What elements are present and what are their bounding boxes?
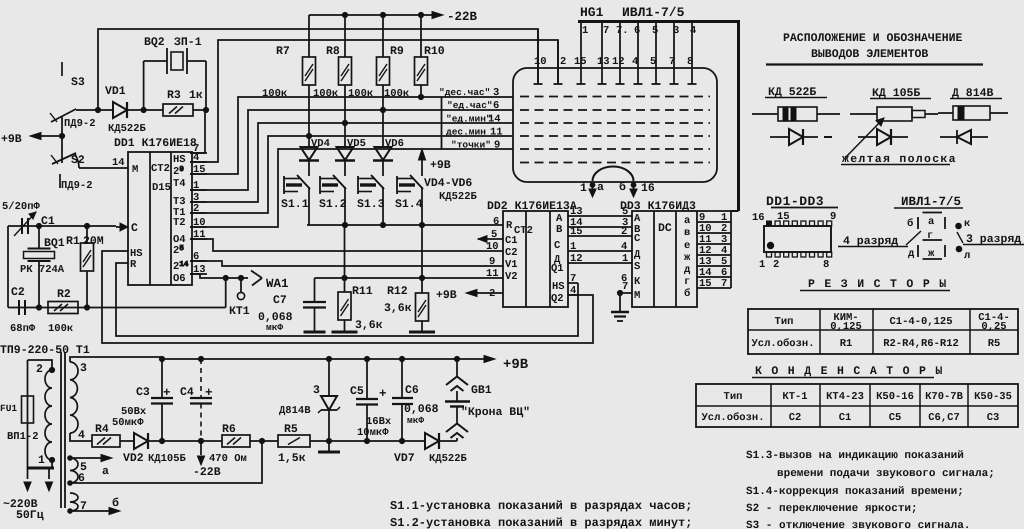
svg-text:100к: 100к [48, 323, 73, 335]
svg-text:РАСПОЛОЖЕНИЕ И ОБОЗНАЧЕНИЕ: РАСПОЛОЖЕНИЕ И ОБОЗНАЧЕНИЕ [783, 32, 963, 45]
transformer secondary winding 3-4 [70, 362, 92, 442]
svg-text:3: 3 [80, 362, 87, 375]
capacitors table [696, 384, 1018, 427]
svg-text:VD7: VD7 [394, 452, 415, 465]
svg-text:"точки": "точки" [451, 140, 491, 151]
svg-text:3,6к: 3,6к [355, 319, 383, 332]
resistor R1 20М [66, 226, 104, 308]
svg-text:S1.4: S1.4 [395, 198, 423, 211]
svg-text:VD4-VD6: VD4-VD6 [424, 177, 472, 190]
node osc bottom BQ1 [36, 305, 41, 310]
svg-text:VD5: VD5 [347, 138, 366, 150]
svg-text:V1: V1 [505, 259, 518, 271]
svg-text:б: б [112, 497, 119, 510]
svg-text:времени подачи звукового сигна: времени подачи звукового сигнала; [777, 468, 995, 480]
note S1.4 [746, 486, 964, 498]
node osc top R1 [84, 223, 89, 228]
anode bus heavy horizontal [578, 20, 740, 23]
wire DD1 pin2 to grid line дес.мин [190, 133, 513, 213]
svg-text:R2: R2 [57, 288, 71, 301]
transformer core [61, 352, 65, 508]
svg-text:DD3 К176ИД3: DD3 К176ИД3 [620, 200, 696, 213]
test point КТ1 [229, 278, 250, 318]
svg-text:С5: С5 [889, 412, 902, 424]
svg-text:10: 10 [534, 56, 547, 68]
svg-text:к: к [964, 218, 970, 230]
3 разряд pointer [956, 218, 1024, 262]
ИВЛ1-7/5 segment legend title [894, 195, 963, 209]
svg-text:C1: C1 [41, 215, 55, 228]
svg-text:S2 - переключение яркости;: S2 - переключение яркости; [746, 503, 918, 515]
svg-text:3: 3 [313, 384, 320, 397]
transformer T1 label [0, 344, 90, 357]
svg-text:11: 11 [486, 268, 499, 280]
svg-text:КД522Б: КД522Б [429, 453, 468, 465]
segment legend drawing [907, 213, 945, 261]
svg-text:О6: О6 [173, 273, 186, 285]
svg-text:4: 4 [78, 429, 85, 442]
svg-text:15: 15 [699, 278, 712, 290]
svg-text:7: 7 [622, 281, 628, 293]
svg-text:ИВЛ1-7/5: ИВЛ1-7/5 [901, 195, 961, 209]
svg-text:R3: R3 [167, 89, 181, 102]
svg-text:6: 6 [634, 25, 640, 37]
svg-text:М: М [132, 164, 138, 176]
output b arrow [70, 497, 120, 515]
ground R12 [409, 331, 435, 334]
package КД105Б [850, 107, 938, 121]
transformer secondary winding 7 [68, 493, 87, 513]
svg-text:D15: D15 [152, 182, 171, 194]
wire DD1 pin3 to grid line ед.мин [190, 120, 513, 202]
svg-text:10мкФ: 10мкФ [357, 427, 389, 439]
svg-text:0,25: 0,25 [981, 321, 1006, 333]
transformer secondary winding 5-6 [68, 456, 87, 486]
svg-text:а: а [102, 465, 109, 478]
svg-text:Д814В: Д814В [279, 405, 311, 417]
label VD4-VD6 КД522Б [424, 177, 478, 203]
svg-text:"Крона ВЦ": "Крона ВЦ" [461, 406, 530, 419]
switch S1.2 [319, 160, 347, 225]
panel title [766, 32, 983, 65]
power +9V terminal (left arrow) [1, 132, 62, 146]
resistor R7 100к [262, 15, 316, 136]
svg-text:б: б [907, 218, 913, 230]
label дес.час pin3 [439, 87, 499, 99]
svg-text:DD1 К176ИЕ18: DD1 К176ИЕ18 [114, 137, 197, 150]
anode bus heavy vertical [731, 21, 739, 211]
svg-text:-22В: -22В [447, 10, 478, 24]
svg-text:VD6: VD6 [385, 138, 404, 150]
callout желтая полоска [841, 118, 957, 166]
svg-text:1: 1 [38, 454, 45, 467]
svg-text:6: 6 [493, 100, 499, 112]
switch S3 (ПД9-2) [50, 62, 85, 136]
grid label box left edge [441, 97, 443, 149]
svg-text:К50-16: К50-16 [876, 391, 914, 403]
DD2 C1 input stub [478, 236, 503, 243]
svg-text:д: д [684, 264, 691, 276]
label КД 105Б [870, 87, 931, 100]
svg-text:+9В: +9В [436, 289, 457, 302]
diode VD2 КД105Б [123, 433, 187, 465]
svg-text:ИВЛ1-7/5: ИВЛ1-7/5 [622, 5, 685, 20]
IC DD3 К176ИД3 body [620, 200, 697, 307]
svg-text:S1.1-установка показаний в раз: S1.1-установка показаний в разрядах часо… [390, 499, 692, 513]
svg-text:C7: C7 [273, 294, 287, 307]
label дес.мин pin11 [446, 127, 503, 139]
svg-text:д: д [908, 248, 915, 260]
svg-text:15: 15 [570, 226, 583, 238]
resistor R12 3,6к [384, 225, 429, 332]
svg-text:0,125: 0,125 [830, 321, 862, 333]
svg-text:г: г [684, 276, 690, 288]
svg-text:C: C [634, 233, 641, 245]
resistor R5 1,5к [278, 423, 310, 465]
svg-text:T2: T2 [173, 217, 186, 229]
svg-text:HS: HS [173, 154, 186, 166]
svg-text:R10: R10 [424, 45, 445, 58]
resistor R8 100к [313, 15, 352, 147]
svg-text:Усл.обозн.: Усл.обозн. [701, 412, 764, 424]
display top pin stubs [534, 22, 697, 85]
svg-text:мкФ: мкФ [407, 415, 424, 426]
note S3 [746, 520, 970, 529]
svg-text:R1: R1 [66, 235, 80, 248]
svg-text:2: 2 [560, 56, 566, 68]
capacitor C5 16Вх10мкФ [350, 359, 392, 441]
diode VD1 КД522Б [105, 85, 147, 135]
+9V arrow to S1.4 [418, 149, 450, 176]
svg-text:б: б [684, 288, 690, 300]
label ед.час pin6 [447, 100, 499, 112]
svg-text:GB1: GB1 [471, 384, 492, 397]
svg-text:Тип: Тип [775, 316, 794, 328]
svg-text:V2: V2 [505, 271, 518, 283]
svg-text:214: 214 [173, 261, 189, 273]
svg-text:C5: C5 [350, 385, 364, 398]
svg-text:е: е [684, 240, 690, 252]
svg-text:50мкФ: 50мкФ [112, 417, 144, 429]
svg-text:HG1: HG1 [580, 5, 604, 20]
svg-text:С3: С3 [987, 412, 1000, 424]
supply rail +9V [160, 355, 529, 373]
svg-text:15: 15 [777, 211, 790, 223]
label точки pin9 [451, 140, 500, 152]
svg-text:R12: R12 [387, 285, 408, 298]
svg-text:ВЫВОДОВ ЭЛЕМЕНТОВ: ВЫВОДОВ ЭЛЕМЕНТОВ [811, 48, 928, 61]
svg-text:14: 14 [112, 157, 125, 169]
svg-text:2: 2 [621, 226, 627, 238]
switch S1.1 [281, 160, 310, 225]
svg-text:а: а [928, 216, 935, 228]
svg-text:а: а [597, 181, 604, 194]
svg-text:1: 1 [622, 253, 628, 265]
svg-text:ПД9-2: ПД9-2 [64, 118, 96, 130]
wire DD1 pin4 to display pin 2 [190, 40, 558, 162]
svg-text:4: 4 [690, 25, 696, 37]
svg-text:BQ2: BQ2 [144, 36, 165, 49]
zener VD3 Д814В [279, 359, 340, 441]
svg-text:4: 4 [621, 241, 627, 253]
svg-text:ж: ж [684, 252, 691, 264]
wire VD1 to R3 [127, 107, 163, 112]
svg-text:5: 5 [650, 56, 656, 68]
svg-text:C: C [131, 222, 138, 235]
wire R3 out node [193, 107, 209, 112]
svg-text:S1.2-установка показаний в раз: S1.2-установка показаний в разрядах мину… [390, 516, 692, 529]
transformer primary winding [28, 360, 55, 460]
+9V arrow to DD2 pin2 [436, 289, 503, 302]
capacitor C3 50Вх50мкФ [112, 356, 173, 441]
switch S2 (ПД9-2) [51, 136, 85, 188]
svg-text:ЗП-1: ЗП-1 [174, 36, 202, 49]
svg-text:R6: R6 [222, 423, 236, 436]
svg-text:25: 25 [173, 245, 184, 257]
capacitor C2 68пФ [10, 286, 36, 335]
svg-text:100к: 100к [262, 88, 287, 100]
svg-text:S1.1: S1.1 [281, 198, 309, 211]
indicator HG1 ИВЛ1-7/5 body [513, 5, 717, 182]
resistor R3 1к [163, 89, 203, 116]
svg-text:C2: C2 [505, 247, 518, 259]
resistors table [748, 309, 1018, 354]
svg-text:КД522Б: КД522Б [108, 123, 147, 135]
svg-text:4: 4 [193, 152, 199, 164]
wire DD1 pin13 net (correction line) [190, 274, 248, 281]
jack WA1 [251, 271, 289, 292]
svg-text:470 Ом: 470 Ом [209, 453, 247, 465]
КОНДЕНСАТОРЫ heading [752, 365, 944, 378]
svg-text:2: 2 [773, 259, 779, 271]
svg-text:R: R [506, 220, 513, 232]
svg-text:"ед.мин": "ед.мин" [446, 114, 492, 125]
svg-text:Р Е З И С Т О Р Ы: Р Е З И С Т О Р Ы [808, 278, 947, 291]
svg-text:л: л [964, 250, 970, 262]
svg-text:+9В: +9В [503, 357, 529, 373]
svg-text:7.: 7. [616, 25, 629, 37]
capacitor C4 (optional, dashed) [180, 356, 213, 441]
DD1 right pin stubs with numbers [190, 143, 207, 276]
wire rectifier output [148, 438, 222, 443]
symbol КД105Б diode [858, 129, 908, 145]
wire BQ2 node to DD1 pin 7 [190, 110, 205, 153]
svg-text:R2-R4,R6-R12: R2-R4,R6-R12 [883, 338, 959, 350]
svg-text:+: + [205, 386, 213, 400]
wire DD3 pin M to ground [617, 290, 632, 312]
resistor R9 100к [348, 15, 404, 147]
DD3 output ladder (anode wires 1-7) [697, 211, 731, 290]
svg-text:DC: DC [658, 222, 672, 235]
svg-text:S: S [634, 261, 640, 273]
svg-text:BQ1: BQ1 [44, 237, 65, 250]
mains label ~220В 50Гц [3, 498, 44, 522]
svg-text:5: 5 [652, 25, 658, 37]
wire DD1 pin10 to grid line точки [190, 149, 513, 227]
svg-text:С2: С2 [789, 412, 802, 424]
svg-text:ПД9-2: ПД9-2 [61, 180, 93, 192]
svg-text:М: М [634, 290, 640, 302]
svg-text:К: К [634, 276, 641, 288]
wire pin6 to common [70, 441, 262, 483]
output a arrow [70, 454, 112, 478]
svg-text:S1.4-коррекция показаний време: S1.4-коррекция показаний времени; [746, 486, 964, 498]
battery GB1 Крона ВЦ [439, 359, 530, 441]
svg-text:Д: Д [634, 249, 641, 261]
note S1.3 [746, 450, 995, 480]
svg-text:S3: S3 [71, 76, 85, 89]
svg-text:15: 15 [574, 56, 587, 68]
svg-text:VD2: VD2 [123, 452, 144, 465]
resistor R4 [92, 423, 120, 447]
svg-text:R1: R1 [840, 338, 853, 350]
svg-text:R8: R8 [326, 45, 340, 58]
label ед.мин pin14 [446, 114, 501, 126]
IC DD2 К176ИЕ13А body [487, 200, 577, 307]
svg-text:а: а [684, 215, 691, 227]
svg-text:C4: C4 [180, 386, 194, 399]
symbol Д814В zener [940, 130, 988, 144]
wire DD1 pin11 to DD2 C2 [190, 239, 503, 251]
svg-text:Q2: Q2 [551, 293, 564, 305]
svg-text:20М: 20М [83, 235, 104, 248]
svg-text:16: 16 [752, 212, 765, 224]
svg-text:в: в [684, 227, 690, 239]
-22V output arrow [193, 441, 221, 479]
svg-text:+: + [379, 387, 387, 401]
svg-text:КД105Б: КД105Б [148, 453, 187, 465]
resistor R10 100к [384, 15, 445, 100]
svg-text:К О Н Д Е Н С А Т О Р Ы: К О Н Д Е Н С А Т О Р Ы [755, 365, 944, 378]
svg-text:1: 1 [570, 241, 576, 253]
svg-text:S1.3: S1.3 [357, 198, 385, 211]
wire oscillator bottom [8, 278, 226, 308]
DD1-DD3 package drawing (DIP-16) [752, 194, 838, 271]
svg-text:КД522Б: КД522Б [439, 191, 478, 203]
svg-text:дес.мин: дес.мин [446, 127, 486, 138]
svg-text:50Гц: 50Гц [16, 509, 44, 522]
note S1.2 [390, 516, 692, 529]
IC DD1 К176ИЕ18 body [114, 137, 197, 285]
svg-text:9: 9 [494, 140, 500, 152]
wire S3 to VD1 [76, 107, 113, 112]
svg-text:КТ4-23: КТ4-23 [826, 391, 864, 403]
diode VD7 КД522Б [394, 433, 468, 465]
РЕЗИСТОРЫ heading [800, 278, 950, 291]
svg-text:+9В: +9В [430, 159, 451, 172]
svg-text:КТ1: КТ1 [229, 305, 250, 318]
svg-text:R9: R9 [390, 45, 404, 58]
wire R6 to R5 [250, 438, 278, 443]
node: S2/S3 common pole [59, 133, 64, 138]
svg-text:СТ2: СТ2 [514, 225, 533, 237]
wire correction line right part [315, 275, 504, 280]
label КД 522Б [765, 86, 827, 99]
DD2 left pin numbers [486, 216, 499, 300]
svg-text:ВП1-2: ВП1-2 [7, 431, 39, 443]
svg-text:WA1: WA1 [266, 277, 289, 291]
svg-text:T4: T4 [173, 178, 186, 190]
anode wire numbers row [582, 25, 696, 37]
ground DD3 [611, 312, 629, 321]
label Д 814В [950, 87, 1002, 100]
svg-text:Усл.обозн.: Усл.обозн. [751, 338, 814, 350]
svg-text:+9В: +9В [1, 133, 22, 146]
DD2 right pin stubs [568, 206, 632, 297]
svg-text:3: 3 [493, 87, 499, 99]
svg-text:К70-7В: К70-7В [925, 391, 964, 403]
svg-text:мкФ: мкФ [266, 322, 283, 333]
package Д814В [938, 106, 1008, 120]
svg-text:б: б [619, 181, 626, 194]
svg-text:HS: HS [552, 281, 565, 293]
svg-text:C2: C2 [11, 286, 25, 299]
svg-text:7: 7 [603, 25, 609, 37]
svg-text:R4: R4 [95, 423, 109, 436]
svg-text:1к: 1к [189, 89, 203, 102]
svg-text:4: 4 [632, 56, 638, 68]
svg-text:3: 3 [673, 25, 679, 37]
filament pin b arrow [630, 182, 637, 197]
DD1 pin C input arrow [116, 223, 128, 231]
svg-text:R: R [130, 259, 137, 271]
svg-text:VD4: VD4 [311, 138, 330, 150]
svg-text:ТП9-220-50 Т1: ТП9-220-50 Т1 [0, 344, 90, 357]
wire S2 to DD1 pin M [79, 157, 128, 169]
filament labels 1 а б 16 [580, 181, 655, 195]
resistor R2 100к [48, 288, 78, 335]
resistor R11 3,6к [338, 225, 383, 332]
4 разряд pointer [838, 231, 921, 248]
wire oscillator top to DD1 C [8, 225, 116, 227]
svg-text:КТ-1: КТ-1 [782, 391, 807, 403]
svg-text:7: 7 [570, 273, 576, 285]
svg-text:С6,С7: С6,С7 [928, 412, 960, 424]
svg-text:DD2 К176ИЕ13А: DD2 К176ИЕ13А [487, 200, 577, 213]
svg-text:68пФ: 68пФ [10, 323, 36, 335]
svg-text:"ед.час": "ед.час" [447, 100, 493, 111]
wire oscillator left side [7, 226, 9, 308]
svg-text:14: 14 [488, 114, 501, 126]
svg-text:100к: 100к [384, 88, 409, 100]
svg-text:C3: C3 [136, 386, 150, 399]
svg-text:1: 1 [580, 182, 587, 195]
display pin numbers row (tube pins) [534, 56, 693, 68]
svg-text:R5: R5 [284, 423, 298, 436]
svg-text:К50-35: К50-35 [974, 391, 1012, 403]
svg-text:-22В: -22В [193, 466, 221, 479]
DD3 left pin numbers [621, 206, 628, 293]
svg-text:РК 724А: РК 724А [20, 264, 65, 276]
svg-text:B: B [556, 224, 563, 236]
ground C7 [304, 331, 326, 334]
filament pin a arrow [589, 182, 596, 197]
note S1.1 [390, 499, 692, 513]
ground R11 [332, 331, 358, 334]
svg-text:12: 12 [612, 56, 625, 68]
resistor R6 470 Ом [209, 423, 250, 465]
svg-text:1: 1 [582, 25, 588, 37]
svg-text:R11: R11 [352, 285, 373, 298]
package КД522Б [752, 107, 840, 121]
note S2 [746, 503, 918, 515]
display internal grids (dashed) [520, 97, 710, 163]
svg-text:C: C [554, 240, 561, 252]
-22V rail [309, 10, 478, 24]
fuse FU1 ВП1-2 [0, 396, 39, 443]
wire switch common bus to DD2 R [307, 222, 503, 227]
svg-text:FU1: FU1 [0, 403, 17, 414]
